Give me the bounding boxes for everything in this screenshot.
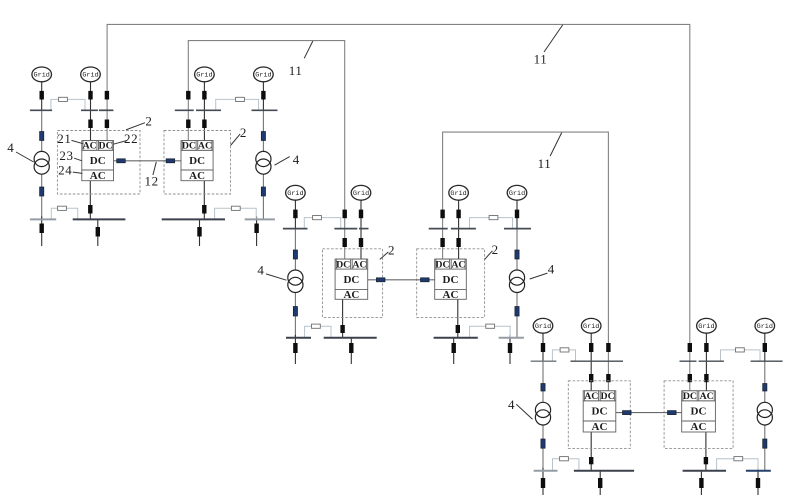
wire: grid feed station C right AC side <box>705 333 707 392</box>
breaker on grid feed station C right (below bus) <box>704 374 708 382</box>
grid source G6 (Grid) <box>351 185 371 200</box>
breaker on converter leg station C left <box>589 457 593 464</box>
converter station boundary 2 (station B left, dashed) <box>323 249 383 318</box>
busbar: lower bus (station B right, transformer side) <box>499 337 524 339</box>
busbar: upper AC bus (station A left, transformer side) <box>30 109 52 111</box>
wire: grid feed station A right AC side <box>203 82 205 142</box>
breaker on DC feed station B right (below bus) <box>440 238 444 247</box>
switch (blue) below transformer station B right <box>515 307 519 317</box>
label 21 (AC/DC cell) <box>57 131 83 146</box>
transformer 4 (station B right) <box>509 270 524 293</box>
breaker on converter leg station B left <box>340 325 344 333</box>
wire: converter output leg station B left <box>342 299 344 338</box>
converter AC stage label (station A left) <box>90 170 106 182</box>
svg-text:11: 11 <box>538 156 552 171</box>
busbar: lower bus (station C left, converter side) <box>574 470 634 472</box>
converter block (station A right) <box>181 141 213 181</box>
breaker on DC feed station B left (below bus) <box>343 238 347 247</box>
wire: upper bus tie station A left <box>51 99 85 110</box>
svg-text:2: 2 <box>145 114 152 129</box>
svg-text:Grid: Grid <box>82 72 98 80</box>
busbar: upper AC bus (station B left, converter side seg 2) <box>359 228 369 230</box>
wire: intra-station DC link (station C) <box>616 412 682 414</box>
svg-text:Grid: Grid <box>450 190 466 198</box>
wire: DC transmission line 11 (station A right to station B left) <box>188 41 344 259</box>
transformer 4 (station B left) <box>288 270 303 293</box>
switch (blue) below transformer station A right <box>261 187 265 196</box>
svg-text:DC: DC <box>592 406 608 418</box>
breaker on DC feed station B left (above bus) <box>343 210 347 219</box>
svg-text:21: 21 <box>57 131 71 146</box>
breaker on DC feed station A left (below bus) <box>105 120 109 129</box>
converter station boundary 2 (station B right, dashed) <box>417 249 485 318</box>
converter cell label DC (station B right top-left) <box>435 259 449 270</box>
busbar: lower bus (station C left, transformer side) <box>534 470 558 472</box>
busbar: upper AC bus (station A right, converter side seg 1) <box>175 109 194 111</box>
disconnector on lower bus tie station B left <box>312 324 321 328</box>
switch (blue) below transformer station B left <box>293 307 297 317</box>
disconnector on upper bus tie station B right <box>489 216 498 220</box>
converter cell label DC (station C right top-left) <box>683 391 697 402</box>
wire: lower bus tie station A right <box>215 208 257 219</box>
wire: lower bus tie station B left <box>305 326 331 338</box>
wire: load stub station B left converter bus <box>350 338 352 364</box>
svg-text:22: 22 <box>124 131 138 146</box>
breaker on grid feed station B left (below bus) <box>359 238 363 247</box>
switch (blue) below transformer station C right <box>763 439 767 448</box>
svg-text:Grid: Grid <box>255 72 271 80</box>
svg-text:DC: DC <box>343 274 359 286</box>
wire: converter output leg station C left <box>590 432 592 471</box>
svg-text:AC: AC <box>90 170 106 182</box>
svg-text:24: 24 <box>58 162 72 177</box>
wire: converter output leg station B right <box>457 299 459 338</box>
disconnector on lower bus tie station A right <box>231 206 240 210</box>
wire: lower bus tie station C right <box>717 459 758 471</box>
wire: DC transmission line 11 (station B right to station C left) <box>443 132 609 390</box>
breaker on load stub station A left (transformer bus) <box>40 224 44 234</box>
switch (blue) above transformer station A right <box>261 132 265 141</box>
svg-text:AC: AC <box>700 391 714 402</box>
wire: transformer branch station A left (grid to upper bus) <box>41 82 43 111</box>
breaker on grid feed station B right (below bus) <box>456 238 460 247</box>
busbar: upper AC bus (station C left, transformer side) <box>531 360 557 362</box>
disconnector on upper bus tie station C right <box>736 348 745 352</box>
converter DC stage label (station B left) <box>343 274 359 286</box>
svg-text:2: 2 <box>240 125 247 140</box>
wire: grid feed station B left AC side <box>360 200 362 260</box>
svg-text:4: 4 <box>257 262 264 277</box>
svg-text:Grid: Grid <box>34 72 50 80</box>
wire: load stub station C left transformer bus <box>542 468 544 495</box>
converter DC stage label (station C left) <box>592 406 608 418</box>
switch (blue) below transformer station A left <box>40 187 44 196</box>
svg-text:Grid: Grid <box>509 190 525 198</box>
disconnector on upper bus tie station A right <box>236 97 245 101</box>
breaker on converter leg station B right <box>456 325 460 333</box>
converter station boundary 2 (station A left, dashed) <box>57 131 140 195</box>
converter station boundary 2 (station C right, dashed) <box>664 381 733 449</box>
svg-text:23: 23 <box>59 148 73 163</box>
disconnector on upper bus tie station B left <box>313 216 322 220</box>
svg-text:2: 2 <box>388 243 395 258</box>
breaker on transformer branch station C left (above bus) <box>541 343 545 352</box>
label 4 (transformer A left) <box>7 140 33 162</box>
wire: load stub station A left converter bus <box>97 219 99 246</box>
switch (blue) on DC link 12 (station A) right <box>166 159 175 163</box>
wire: load stub station C right converter bus <box>700 471 702 495</box>
label 2 (station A left) <box>126 114 152 130</box>
converter cell label DC (station B left top-left) <box>336 259 350 270</box>
breaker on DC feed station A right (above bus) <box>186 91 190 100</box>
svg-text:AC: AC <box>343 289 359 301</box>
switch (blue) above transformer station C left <box>541 384 545 392</box>
breaker on grid feed station A left (below bus) <box>88 120 92 129</box>
grid source G10 (Grid) <box>581 318 601 333</box>
breaker on DC feed station C left (below bus) <box>606 374 610 382</box>
wire: converter output leg station A left <box>89 181 91 220</box>
converter cell label AC (station C left top-left) <box>584 391 598 402</box>
breaker on DC feed station B right (above bus) <box>440 210 444 219</box>
wire: grid feed station A left AC side <box>90 82 92 142</box>
wire: load stub station C left converter bus <box>599 471 601 495</box>
svg-text:DC: DC <box>683 391 697 402</box>
wire: intra-station DC link 12 (station A) <box>114 160 182 162</box>
wire: transformer branch station B left (grid to upper bus) <box>294 200 296 228</box>
busbar: lower bus (station A left, transformer side) <box>30 218 56 220</box>
label 2 (station B left) <box>380 243 395 260</box>
label 4 (transformer B left) <box>257 262 286 280</box>
svg-text:Grid: Grid <box>757 323 773 331</box>
breaker on converter leg station A right <box>202 205 206 214</box>
svg-text:AC: AC <box>451 259 465 270</box>
switch (blue) on DC link (station C) right <box>668 411 677 415</box>
converter DC stage label (station A left) <box>90 155 106 167</box>
switch (blue) below transformer station C left <box>541 439 545 448</box>
wire: load stub station C right transformer bus <box>757 468 759 495</box>
busbar: upper AC bus (station C right, transformer side) <box>751 360 783 362</box>
grid source G8 (Grid) <box>507 185 527 200</box>
switch (blue) above transformer station A left <box>40 132 44 141</box>
breaker on load stub station B right (transformer bus) <box>508 343 512 353</box>
grid source G3 (Grid) <box>195 67 215 82</box>
breaker on load stub station C left (transformer bus) <box>541 478 545 488</box>
breaker on load stub station C right (transformer bus) <box>756 478 760 488</box>
converter AC stage label (station B left) <box>343 289 359 301</box>
label 2 (station B right) <box>485 242 499 260</box>
converter cell label DC (station A left top-right) <box>99 141 113 152</box>
disconnector on upper bus tie station A left <box>59 97 68 101</box>
busbar: lower bus (station A left, converter side) <box>73 218 126 220</box>
switch (blue) above transformer station B left <box>293 250 297 259</box>
wire: intra-station DC link (station B) <box>368 279 435 281</box>
svg-text:4: 4 <box>548 262 555 277</box>
svg-text:DC: DC <box>90 155 106 167</box>
busbar: upper AC bus (station B right, transformer side) <box>504 228 531 230</box>
wire: lower bus tie station B right <box>470 326 511 338</box>
breaker on load stub station B left (converter bus) <box>349 343 353 353</box>
converter station boundary 2 (station C left, dashed) <box>568 381 630 449</box>
wire: lower bus tie station A left <box>51 208 77 219</box>
label 23 (DC stage) <box>59 148 81 163</box>
label 12 (DC link) <box>144 162 158 189</box>
grid source G5 (Grid) <box>286 185 306 200</box>
wire: transformer branch station A right (grid to upper bus) <box>262 82 264 111</box>
transformer 4 (station A left) <box>34 151 49 174</box>
breaker on load stub station B right (converter bus) <box>452 343 456 353</box>
disconnector on lower bus tie station C left <box>560 457 569 461</box>
label 11 (line A-B) <box>289 41 313 78</box>
converter DC stage label (station C right) <box>691 406 707 418</box>
wire: grid feed station C left AC side <box>590 333 592 392</box>
svg-text:DC: DC <box>336 259 350 270</box>
breaker on load stub station A right (transformer bus) <box>254 224 258 234</box>
disconnector on upper bus tie station C left <box>560 348 569 352</box>
label 4 (transformer C left) <box>508 397 532 419</box>
busbar: lower bus (station C right, converter side) <box>683 470 726 472</box>
svg-text:Grid: Grid <box>196 72 212 80</box>
converter cell label AC (station A right top-right) <box>198 141 212 152</box>
svg-text:4: 4 <box>7 140 14 155</box>
svg-text:Grid: Grid <box>698 323 714 331</box>
converter AC stage label (station B right) <box>443 289 459 301</box>
breaker on converter leg station C right <box>704 457 708 464</box>
breaker on load stub station C left (converter bus) <box>598 478 602 488</box>
grid source G1 (Grid) <box>32 67 52 82</box>
wire: transformer branch station A left (upper bus to lower bus) <box>41 110 43 219</box>
svg-text:DC: DC <box>99 141 113 152</box>
label 11 (line B-C) <box>538 133 562 171</box>
converter cell label AC (station B left top-right) <box>352 259 366 270</box>
busbar: upper AC bus (station C left, converter side seg 1) <box>571 360 624 362</box>
breaker on transformer branch station B right (above bus) <box>515 210 519 219</box>
breaker on load stub station A left (converter bus) <box>96 227 100 237</box>
svg-text:DC: DC <box>601 391 615 402</box>
grid source G4 (Grid) <box>254 67 274 82</box>
converter block (station C left) <box>583 391 616 432</box>
converter AC stage label (station C right) <box>691 421 707 433</box>
breaker on grid feed station A right (above bus) <box>202 91 206 100</box>
wire: transformer branch station B left (upper bus to lower bus) <box>294 229 296 338</box>
grid source G11 (Grid) <box>697 318 717 333</box>
wire: converter output leg station C right <box>705 432 707 471</box>
converter block (station A left) <box>82 141 114 181</box>
breaker on DC feed station C left (above bus) <box>606 343 610 352</box>
busbar: lower bus (station B right, converter side) <box>434 337 478 339</box>
label 22 (DC cell) <box>113 131 138 146</box>
svg-text:DC: DC <box>189 155 205 167</box>
busbar: upper AC bus (station A right, converter side seg 2) <box>196 109 221 111</box>
busbar: upper AC bus (station C right, converter side seg 2) <box>699 360 724 362</box>
label 4 (transformer B right) <box>530 262 555 280</box>
svg-text:11: 11 <box>289 63 303 78</box>
wire: load stub station A right converter bus <box>199 219 201 246</box>
breaker on grid feed station C right (above bus) <box>704 343 708 352</box>
svg-text:AC: AC <box>443 289 459 301</box>
breaker on grid feed station A right (below bus) <box>202 120 206 129</box>
label 24 (AC stage) <box>58 162 82 177</box>
wire: upper bus tie station B left <box>304 218 340 229</box>
wire: upper bus tie station C right <box>721 350 761 361</box>
label 11 (line A-C) <box>534 25 563 67</box>
wire: transformer branch station B right (grid to upper bus) <box>516 200 518 228</box>
breaker on converter leg station A left <box>88 205 92 214</box>
busbar: upper AC bus (station C right, converter side seg 1) <box>680 360 697 362</box>
disconnector on lower bus tie station B right <box>486 324 495 328</box>
svg-text:Grid: Grid <box>353 190 369 198</box>
svg-text:12: 12 <box>144 174 158 189</box>
converter DC stage label (station B right) <box>443 274 459 286</box>
wire: load stub station B right transformer bus <box>509 335 511 364</box>
busbar: lower bus (station B left, converter side) <box>324 337 377 339</box>
busbar: upper AC bus (station A right, transformer side) <box>252 109 278 111</box>
transformer 4 (station A right) <box>256 151 271 174</box>
wire: load stub station A right transformer bus <box>256 216 258 246</box>
busbar: upper AC bus (station B right, converter side seg 2) <box>451 228 476 230</box>
grid source G12 (Grid) <box>755 318 775 333</box>
breaker on transformer branch station B left (above bus) <box>293 210 297 219</box>
converter AC stage label (station A right) <box>189 170 205 182</box>
svg-text:2: 2 <box>492 242 499 257</box>
switch (blue) on DC link (station C) left <box>623 411 632 415</box>
svg-text:AC: AC <box>83 141 97 152</box>
breaker on DC feed station A right (below bus) <box>186 120 190 129</box>
breaker on load stub station B left (transformer bus) <box>293 343 297 353</box>
breaker on grid feed station C left (above bus) <box>589 343 593 352</box>
switch (blue) on DC link (station B) right <box>421 278 430 282</box>
busbar: upper AC bus (station B left, transformer side) <box>283 228 308 230</box>
breaker on grid feed station C left (below bus) <box>589 374 593 382</box>
converter cell label DC (station A right top-left) <box>182 141 196 152</box>
disconnector on lower bus tie station C right <box>734 457 743 461</box>
svg-text:DC: DC <box>691 406 707 418</box>
converter block (station B left) <box>335 259 368 299</box>
converter cell label AC (station C right top-right) <box>700 391 714 402</box>
grid source G2 (Grid) <box>81 67 101 82</box>
busbar: upper AC bus (station A left, converter side seg 1) <box>81 109 98 111</box>
breaker on DC feed station C right (above bus) <box>688 343 692 352</box>
busbar: lower bus (station A right, converter side) <box>162 218 225 220</box>
svg-text:Grid: Grid <box>535 323 551 331</box>
wire: load stub station B right converter bus <box>453 338 455 364</box>
grid source G9 (Grid) <box>533 318 553 333</box>
svg-text:AC: AC <box>352 259 366 270</box>
busbar: lower bus (station A right, transformer side) <box>245 218 275 220</box>
breaker on load stub station C right (converter bus) <box>699 478 703 488</box>
converter block (station B right) <box>435 259 467 299</box>
transformer 4 (station C left) <box>535 402 550 425</box>
svg-text:DC: DC <box>182 141 196 152</box>
label 2 (station A right) <box>231 125 247 145</box>
switch (blue) on DC link 12 (station A) left <box>117 159 126 163</box>
wire: transformer branch station B right (upper bus to lower bus) <box>516 229 518 338</box>
grid source G7 (Grid) <box>449 185 469 200</box>
wire: upper bus tie station C left <box>552 350 575 361</box>
converter AC stage label (station C left) <box>592 421 608 433</box>
wire: DC transmission line 11 (station A left to station C right) <box>107 24 690 390</box>
svg-text:DC: DC <box>443 274 459 286</box>
converter cell label AC (station B right top-right) <box>451 259 465 270</box>
converter cell label DC (station C left top-right) <box>601 391 615 402</box>
svg-text:AC: AC <box>189 170 205 182</box>
label 4 (transformer A right) <box>275 152 300 167</box>
switch (blue) on DC link (station B) left <box>376 278 385 282</box>
wire: transformer branch station C left (grid to upper bus) <box>542 333 544 361</box>
busbar: lower bus (station C right, transformer side) <box>746 470 771 472</box>
converter station boundary 2 (station A right, dashed) <box>164 131 231 195</box>
svg-text:DC: DC <box>435 259 449 270</box>
svg-text:Grid: Grid <box>583 323 599 331</box>
disconnector on lower bus tie station A left <box>58 206 67 210</box>
svg-text:AC: AC <box>584 391 598 402</box>
breaker on load stub station A right (converter bus) <box>197 227 201 237</box>
wire: load stub station B left transformer bus <box>294 335 296 364</box>
svg-text:AC: AC <box>691 421 707 433</box>
svg-text:AC: AC <box>592 421 608 433</box>
svg-text:11: 11 <box>534 52 548 67</box>
wire: load stub station A left transformer bus <box>41 216 43 246</box>
svg-text:AC: AC <box>198 141 212 152</box>
busbar: lower bus (station B left, transformer side) <box>286 337 311 339</box>
breaker on transformer branch station C right (above bus) <box>763 343 767 352</box>
breaker on grid feed station A left (above bus) <box>88 91 92 100</box>
svg-text:4: 4 <box>293 152 300 167</box>
breaker on transformer branch station A left (above bus) <box>40 91 44 100</box>
wire: transformer branch station C right (grid to upper bus) <box>764 333 766 361</box>
wire: grid feed station B right AC side <box>458 200 460 260</box>
breaker on grid feed station B right (above bus) <box>456 210 460 219</box>
wire: transformer branch station C left (upper bus to lower bus) <box>542 361 544 471</box>
svg-text:4: 4 <box>508 397 515 412</box>
switch (blue) above transformer station C right <box>763 384 767 392</box>
wire: transformer branch station C right (upper bus to lower bus) <box>764 361 766 471</box>
wire: lower bus tie station C left <box>553 459 579 471</box>
transformer 4 (station C right) <box>757 402 772 425</box>
breaker on grid feed station B left (above bus) <box>359 210 363 219</box>
breaker on transformer branch station A right (above bus) <box>261 91 265 100</box>
converter cell label AC (station A left top-left) <box>83 141 97 152</box>
wire: upper bus tie station A right <box>216 99 259 110</box>
busbar: upper AC bus (station B left, converter side seg 1) <box>334 228 357 230</box>
wire: converter output leg station A right <box>203 181 205 220</box>
switch (blue) above transformer station B right <box>515 250 519 259</box>
wire: transformer branch station A right (upper bus to lower bus) <box>262 110 264 219</box>
breaker on DC feed station C right (below bus) <box>688 374 692 382</box>
busbar: upper AC bus (station A left, converter side seg 2) <box>99 109 114 111</box>
converter DC stage label (station A right) <box>189 155 205 167</box>
busbar: upper AC bus (station B right, converter side seg 1) <box>429 228 448 230</box>
converter block (station C right) <box>682 391 716 432</box>
svg-text:Grid: Grid <box>287 190 303 198</box>
breaker on DC feed station A left (above bus) <box>105 91 109 100</box>
wire: upper bus tie station B right <box>470 218 513 229</box>
